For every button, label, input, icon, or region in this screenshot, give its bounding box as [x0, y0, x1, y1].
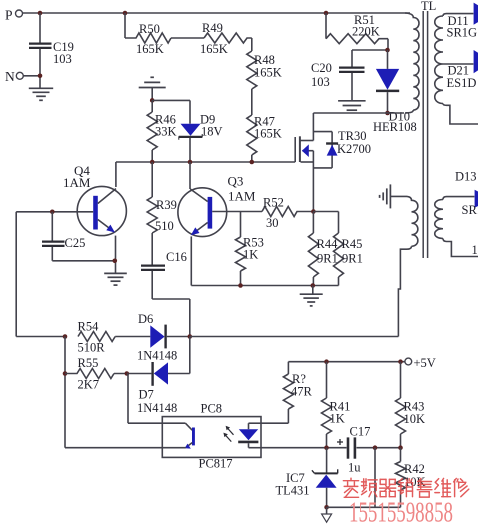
node junction C19 top	[38, 11, 43, 16]
svg-text:R44: R44	[317, 237, 339, 251]
resistor R45	[334, 212, 363, 286]
svg-text:TL: TL	[421, 0, 436, 13]
svg-text:165K: 165K	[136, 42, 164, 56]
svg-text:C20: C20	[311, 61, 332, 75]
svg-text:N: N	[5, 69, 15, 84]
wire R49 elbow down to R48	[251, 38, 253, 51]
capacitor C19	[29, 40, 74, 66]
wire Q4 emitter down	[115, 236, 117, 273]
wire R48 to R47	[251, 89, 253, 115]
capacitor C17	[337, 425, 370, 475]
svg-text:PC817: PC817	[199, 457, 233, 471]
svg-text:510R: 510R	[78, 341, 106, 355]
node junction R42/R43	[398, 445, 403, 450]
node junction R47 on bus	[250, 160, 255, 165]
svg-text:K2700: K2700	[337, 142, 371, 156]
resistor R43	[396, 362, 426, 448]
resistor R? 47R	[261, 362, 313, 424]
svg-text:SR1: SR1	[462, 203, 478, 217]
resistor R39	[147, 162, 177, 233]
svg-text:30: 30	[266, 216, 279, 230]
node junction R50 branch	[123, 11, 128, 16]
node junction R51 branch	[324, 11, 329, 16]
wire R51 right lead down	[387, 39, 389, 50]
node junction R43 top	[398, 359, 403, 364]
terminal +5V	[405, 356, 436, 370]
wire C20 bottom lead	[351, 73, 353, 100]
node junction D9/Q3 collector on bus	[188, 160, 193, 165]
svg-text:ES1D: ES1D	[447, 76, 477, 90]
wire top bus P to transformer	[23, 12, 410, 14]
svg-text:PC8: PC8	[201, 402, 223, 416]
wire R46 top lead	[151, 100, 153, 112]
capacitor C25	[42, 212, 115, 261]
wire TL431 anode to R42 bottom	[327, 506, 401, 508]
node junction R55 left	[63, 371, 68, 376]
svg-text:9R1: 9R1	[317, 252, 338, 266]
node junction C17/loop	[373, 445, 378, 450]
node junction clamp	[385, 48, 390, 53]
transformer primary winding top	[405, 13, 419, 110]
svg-text:C25: C25	[65, 236, 86, 250]
ground below bottom bus	[300, 286, 323, 306]
node junction R44 bottom	[311, 283, 316, 288]
svg-text:Q3: Q3	[228, 174, 244, 189]
optocoupler PC8 led	[238, 423, 261, 448]
zener diode D9	[179, 113, 223, 140]
wire top bus down to R50	[124, 13, 126, 38]
node junction R41 top	[324, 359, 329, 364]
wire clamp node horizontal	[352, 49, 388, 51]
wire Q4 base from feedback	[16, 211, 93, 213]
ground below Q4	[104, 273, 127, 285]
wire secondary top to D11	[443, 14, 473, 16]
wire R44 to R45 top	[313, 211, 338, 213]
node junction R55/D7/PC8	[125, 371, 130, 376]
svg-text:220K: 220K	[352, 25, 380, 39]
svg-text:103: 103	[53, 52, 72, 66]
wire primary bottom to drain bus	[405, 110, 413, 113]
node junction R46/R39 on bus	[150, 160, 155, 165]
resistor R48	[247, 51, 282, 89]
svg-text:D6: D6	[138, 312, 153, 326]
wire R51 left lead	[325, 13, 327, 39]
wire lower secondary top to D13	[443, 197, 474, 200]
resistor R53	[236, 236, 264, 286]
wire R46 bottom lead	[151, 150, 153, 162]
wire gate bus	[116, 161, 295, 163]
wire C19 top lead	[39, 13, 41, 43]
wire R55 junction to PC8 pin	[127, 374, 163, 424]
wire feedback from Q4 base	[16, 212, 65, 337]
wire C20 top lead	[351, 50, 353, 67]
watermark phone number	[349, 498, 453, 525]
transformer auxiliary winding	[407, 196, 418, 246]
svg-text:R55: R55	[78, 356, 99, 370]
svg-text:1N4148: 1N4148	[137, 401, 177, 415]
wire R50 to R49	[171, 37, 204, 39]
wire PC8 diode cathode to R41 node	[261, 447, 347, 449]
svg-text:15515598858: 15515598858	[349, 498, 453, 525]
ground inverted above R46	[139, 77, 166, 100]
node junction R46 top	[150, 98, 155, 103]
wire C17 right to divider	[357, 447, 401, 449]
svg-text:R42: R42	[404, 462, 425, 476]
wire aux bottom to feedback node	[398, 246, 411, 336]
node junction R53 bottom	[238, 283, 243, 288]
svg-text:R39: R39	[156, 198, 177, 212]
svg-text:C17: C17	[350, 425, 371, 439]
svg-text:SR1G: SR1G	[447, 26, 478, 40]
ground below C20	[338, 101, 366, 110]
wire secondary tap to D21	[443, 63, 473, 65]
svg-text:1AM: 1AM	[63, 175, 91, 190]
watermark line 1	[343, 478, 468, 497]
node junction Q4 emitter / C25	[113, 259, 118, 264]
svg-text:1AM: 1AM	[228, 189, 256, 204]
wire secondary bottom jog	[443, 104, 478, 125]
ground rotated at aux winding	[380, 184, 391, 208]
wire D9 to gate bus	[189, 138, 191, 162]
svg-text:165K: 165K	[254, 66, 282, 80]
wire R46 junction to D9	[152, 100, 190, 123]
resistor R51	[326, 13, 388, 44]
wire node A to aux	[190, 336, 399, 338]
resistor R52	[262, 196, 313, 231]
node junction R54 left	[63, 334, 68, 339]
resistor R44	[308, 212, 338, 286]
svg-text:1u: 1u	[348, 461, 361, 475]
optocoupler PC8 phototransistor	[162, 423, 195, 448]
svg-text:HER108: HER108	[373, 120, 417, 134]
wire Q3 base to R52	[212, 211, 262, 213]
svg-text:1K: 1K	[243, 248, 258, 262]
transformer secondary winding top	[435, 16, 443, 104]
resistor R54	[78, 320, 151, 355]
svg-text:+5V: +5V	[414, 356, 436, 370]
svg-text:18V: 18V	[201, 125, 223, 139]
wire C19 bottom lead	[39, 49, 41, 88]
resistor R46	[147, 112, 176, 150]
node junction D6/C16/aux node A	[188, 334, 193, 339]
optocoupler PC8 light arrows	[223, 426, 233, 442]
resistor R41	[322, 362, 351, 448]
svg-text:103: 103	[311, 75, 330, 89]
wire N to C19	[23, 75, 40, 77]
diode D13	[455, 170, 478, 218]
svg-text:R52: R52	[263, 196, 284, 210]
svg-text:C16: C16	[166, 250, 187, 264]
wire loop down	[374, 448, 376, 508]
wire drain bus	[313, 112, 404, 114]
resistor R42	[396, 448, 426, 508]
diode D11	[447, 3, 478, 40]
diode D10	[373, 50, 417, 134]
svg-text:165K: 165K	[254, 127, 282, 141]
svg-text:TL431: TL431	[276, 484, 310, 498]
wire node A down to D7	[168, 337, 190, 374]
svg-text:R50: R50	[139, 22, 160, 36]
ground below N	[29, 88, 53, 100]
wire Q4 collector to bus	[115, 162, 117, 187]
terminal P	[5, 8, 23, 23]
svg-text:1K: 1K	[330, 412, 345, 426]
node junction D10/drain wire	[385, 111, 390, 116]
svg-text:10K: 10K	[404, 412, 426, 426]
transistor Q3	[178, 174, 256, 237]
node junction source/R52/R44	[311, 209, 316, 214]
diode D21	[447, 50, 478, 90]
wire feedback vertical	[64, 337, 66, 448]
svg-text:510: 510	[155, 219, 174, 233]
optocoupler PC8 box	[162, 402, 261, 471]
svg-text:D7: D7	[139, 388, 154, 402]
transistor TR30 K2700 MOSFET	[295, 113, 371, 212]
svg-text:9R1: 9R1	[342, 252, 363, 266]
wire PC8 emitter out to feedback	[65, 447, 162, 449]
terminal N	[5, 69, 23, 84]
capacitor C16	[141, 233, 190, 337]
regulator IC7 TL431	[276, 448, 338, 508]
wire R53 top lead	[240, 212, 242, 238]
svg-text:1: 1	[472, 243, 478, 257]
transformer lower secondary winding	[435, 200, 443, 239]
resistor R49	[200, 21, 252, 56]
capacitor C20	[311, 61, 365, 89]
wire +5V rail	[288, 361, 405, 363]
transformer TL core	[421, 0, 436, 258]
svg-text:1N4148: 1N4148	[137, 349, 177, 363]
wire Q3 collector to bus	[189, 162, 191, 189]
svg-text:R45: R45	[342, 237, 363, 251]
svg-text:R54: R54	[78, 320, 100, 334]
svg-text:P: P	[5, 8, 13, 23]
resistor R55	[65, 356, 151, 392]
wire lower secondary bottom out	[443, 239, 478, 258]
resistor R47	[247, 115, 282, 156]
svg-text:165K: 165K	[200, 42, 228, 56]
wire Q3 emitter down	[190, 236, 192, 285]
node junction TL431 anode	[324, 505, 329, 510]
resistor R50	[125, 22, 171, 56]
ground arrow below TL431	[322, 507, 332, 522]
node junction N/C19	[38, 74, 43, 79]
svg-text:33K: 33K	[155, 125, 177, 139]
diode D7	[137, 362, 177, 415]
diode D6	[137, 312, 190, 363]
svg-text:2K7: 2K7	[78, 378, 100, 392]
node junction Q4 base / C25	[50, 210, 55, 215]
node junction R41/TL431/C17	[324, 445, 329, 450]
svg-text:D13: D13	[455, 170, 477, 184]
wire aux top	[390, 195, 407, 197]
svg-text:47R: 47R	[291, 385, 313, 399]
svg-text:R49: R49	[202, 21, 223, 35]
wire R47 to gate bus	[251, 155, 253, 162]
wire bottom bus	[191, 285, 338, 287]
transistor Q4	[63, 163, 126, 236]
